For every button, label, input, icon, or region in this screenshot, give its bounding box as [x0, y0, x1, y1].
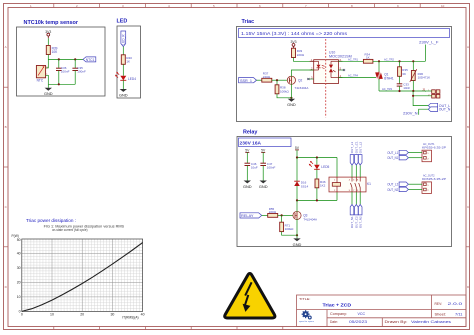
- svg-text:OUT_N2: OUT_N2: [358, 216, 362, 228]
- hierarchical label OUT_L1: [387, 150, 408, 155]
- wire Q2 source to ground: [290, 84, 292, 99]
- capacitor C46: [245, 162, 258, 181]
- svg-text:Triac + ZCD: Triac + ZCD: [323, 303, 352, 309]
- svg-text:220Ω: 220Ω: [263, 75, 271, 79]
- svg-text:1K: 1K: [126, 60, 130, 64]
- junction bottom rail / C36: [58, 83, 60, 85]
- hierarchical label OUT_N: [428, 107, 451, 112]
- ground (C46): [243, 181, 252, 189]
- resistor R55: [268, 214, 278, 218]
- opto pin numbers: [311, 58, 342, 80]
- svg-text:39: 39: [402, 72, 406, 76]
- wire coil bottom rail: [297, 199, 337, 201]
- graph curve: [22, 243, 143, 312]
- svg-text:open for space: open for space: [299, 320, 314, 323]
- junction rail/LED5: [316, 156, 318, 158]
- power 3V3 (NTC): [47, 33, 50, 38]
- svg-text:TITLE:: TITLE:: [299, 297, 311, 301]
- svg-text:1.15V 15mA (3.3V) : 144 ohms =: 1.15V 15mA (3.3V) : 144 ohms => 220 ohms: [241, 31, 348, 36]
- capacitor C36: [56, 59, 70, 84]
- title block v divider drawnby: [381, 318, 383, 327]
- svg-text:KF635-6.35-2P: KF635-6.35-2P: [422, 145, 446, 149]
- svg-text:220Ω: 220Ω: [297, 53, 305, 57]
- svg-text:B: B: [5, 125, 7, 129]
- junction 5V rail: [296, 156, 298, 158]
- svg-text:Triac power dissipation :: Triac power dissipation :: [26, 218, 76, 223]
- svg-text:7/11: 7/11: [455, 313, 463, 317]
- svg-text:LED: LED: [117, 19, 128, 25]
- company logo: [299, 310, 314, 323]
- graph x labels: [21, 312, 145, 316]
- svg-text:GND: GND: [259, 184, 268, 189]
- svg-text:2.0.0: 2.0.0: [448, 302, 463, 306]
- power 5V (C46): [245, 148, 250, 163]
- svg-text:OUT_N: OUT_N: [439, 108, 451, 112]
- junction R34/triac: [378, 60, 380, 62]
- svg-text:OUT_L2: OUT_L2: [358, 142, 362, 154]
- svg-text:100nF: 100nF: [267, 166, 276, 170]
- hierarchical label OUT_N2: [387, 187, 408, 192]
- svg-text:T4L5404A: T4L5404A: [295, 86, 309, 90]
- wire rail down to D16: [296, 158, 298, 182]
- svg-text:A: A: [467, 45, 469, 49]
- wire Q2 drain to opto pin2: [291, 70, 313, 77]
- wire RELAY to R55: [262, 214, 268, 216]
- svg-text:RELAY: RELAY: [241, 214, 254, 218]
- wire D16 to bottom rail: [296, 186, 298, 200]
- svg-text:LED5: LED5: [321, 165, 329, 169]
- wire R71 to gnd rail: [282, 232, 297, 236]
- opto pin3 no-connect: [308, 78, 313, 80]
- svg-text:Date:: Date:: [330, 320, 338, 324]
- svg-text:NTC10k temp sensor: NTC10k temp sensor: [24, 20, 79, 26]
- frame ticks left/right: [4, 87, 470, 247]
- junction node rail / C36: [58, 58, 60, 60]
- svg-text:on-state current (full cycle): on-state current (full cycle): [52, 228, 88, 232]
- transistor Q1 triac BTA41: [375, 61, 394, 91]
- connector AC_OUT1: [422, 142, 446, 162]
- svg-text:10D471K: 10D471K: [418, 76, 431, 80]
- wire bottom rail AC_TR3: [379, 90, 426, 92]
- svg-text:BTA41: BTA41: [384, 76, 394, 80]
- svg-text:A: A: [5, 45, 7, 49]
- junction rail/R35: [398, 60, 400, 62]
- power 5V (C47): [261, 148, 266, 163]
- svg-text:220Ω: 220Ω: [269, 210, 277, 214]
- svg-text:GND: GND: [287, 102, 296, 107]
- hierarchical label OUT_L2: [387, 182, 408, 187]
- junction bottom rail/R46: [316, 199, 318, 201]
- resistor R37: [262, 78, 272, 82]
- note box relay: [239, 138, 292, 147]
- wire opto pin6 net AC_TR1: [338, 60, 363, 62]
- junction rail/R36: [412, 60, 414, 62]
- wire R37 to Q2 gate: [272, 79, 288, 81]
- capacitor C33 snubber: [397, 82, 411, 91]
- capacitor C47: [260, 162, 275, 181]
- svg-text:GND: GND: [243, 184, 252, 189]
- svg-text:10uF: 10uF: [251, 166, 258, 170]
- opto pin5 no-connect: [338, 69, 344, 71]
- LED section box: [117, 26, 141, 98]
- wire rail to connector pin1: [426, 90, 432, 92]
- isolation dashed line: [325, 39, 327, 118]
- wire rail down to LED5: [316, 158, 318, 165]
- frame ticks bottom: [54, 327, 283, 330]
- wire label to R40: [122, 47, 124, 55]
- svg-text:40: 40: [141, 312, 145, 316]
- svg-text:10: 10: [441, 4, 445, 8]
- hierarchical label OUT_L: [428, 103, 450, 108]
- hierarchical label OUT_L2 (vertical top): [358, 142, 362, 165]
- global label SSR_1: [239, 78, 257, 83]
- wire SSR_1 to R37: [257, 79, 262, 81]
- svg-text:REV:: REV:: [435, 302, 443, 306]
- wire R38 to gnd rail: [277, 94, 291, 98]
- frame ticks top: [54, 4, 420, 8]
- resistor R71: [280, 215, 294, 231]
- svg-text:SSR_1: SSR_1: [240, 79, 252, 83]
- wire top rail AC_TR2: [373, 60, 426, 62]
- junction Q3 source/gnd: [296, 234, 298, 236]
- wire 230V_L_F down: [424, 45, 426, 62]
- opto pin stubs: [310, 61, 343, 77]
- junction bottom rail/C33: [398, 90, 400, 92]
- thermistor NTC: [36, 66, 48, 83]
- svg-text:40: 40: [17, 252, 21, 256]
- svg-text:230V_L_F: 230V_L_F: [419, 41, 439, 45]
- wire rail up to coil: [336, 158, 338, 178]
- svg-text:T4L5404A: T4L5404A: [303, 217, 317, 221]
- wire NTC to bottom rail: [46, 75, 49, 84]
- capacitor C35: [72, 59, 86, 84]
- wire 3V3 to R39: [47, 38, 49, 45]
- svg-text:Triac: Triac: [242, 19, 255, 25]
- resistor R33: [292, 48, 296, 57]
- svg-text:GND: GND: [44, 91, 53, 96]
- resistor R46: [315, 179, 319, 188]
- ground (C47): [259, 181, 268, 189]
- wire 230V_N to OUT_N: [419, 109, 429, 115]
- svg-text:20: 20: [80, 312, 84, 316]
- svg-text:230V_N: 230V_N: [403, 111, 418, 115]
- svg-text:P(W): P(W): [12, 234, 19, 238]
- hierarchical label OUT_N2 (vertical bottom): [358, 205, 362, 229]
- resistor R38: [275, 80, 289, 94]
- svg-text:Valentin Cabanes: Valentin Cabanes: [411, 320, 451, 324]
- junction R71 node: [281, 214, 283, 216]
- ground (NTC): [44, 84, 53, 96]
- svg-text:5V: 5V: [295, 146, 300, 150]
- hierarchical label OUT_N1 (vertical bottom): [350, 205, 354, 229]
- graph frame: [22, 239, 143, 311]
- varistor R36: [410, 61, 430, 91]
- wire branch to connector pin2: [413, 91, 432, 96]
- junction R38 node: [276, 79, 278, 81]
- svg-text:0: 0: [21, 312, 23, 316]
- wire R33 to opto pin1: [294, 58, 314, 62]
- Relay section box: [237, 137, 452, 247]
- svg-text:KF635-6.35-2P: KF635-6.35-2P: [422, 177, 446, 181]
- hierarchical label OUT_C (vertical top): [355, 141, 359, 165]
- wire LED5 to R46: [316, 169, 318, 179]
- svg-text:Relay: Relay: [243, 130, 257, 136]
- diode D16 flyback: [294, 181, 308, 189]
- title block v divider rev: [431, 295, 433, 318]
- transistor Q2: [287, 76, 308, 90]
- svg-text:100kΩ: 100kΩ: [285, 227, 295, 231]
- ground (relay section): [293, 238, 302, 246]
- svg-text:AC_TR4: AC_TR4: [348, 74, 358, 78]
- connector AC_OUT2: [422, 174, 446, 194]
- svg-text:Sheet:: Sheet:: [435, 313, 447, 317]
- title block v divider logo: [326, 310, 328, 327]
- svg-text:10K: 10K: [52, 50, 59, 54]
- graph major grid: [22, 239, 143, 311]
- LED LED5: [309, 161, 330, 169]
- wire Q3 drain up: [296, 200, 298, 212]
- svg-text:3V3: 3V3: [45, 30, 51, 34]
- wire R55 to Q3 gate: [278, 214, 293, 216]
- svg-text:30: 30: [110, 312, 114, 316]
- power 3V3 (triac): [292, 44, 295, 49]
- junction bottom rail/Q3: [296, 199, 298, 201]
- svg-text:1K2: 1K2: [320, 184, 326, 188]
- hierarchical label OUT_N1: [387, 156, 408, 161]
- svg-text:1K: 1K: [366, 56, 370, 60]
- wires relay top contacts: [352, 165, 360, 177]
- hierarchical label OUT_C2 (vertical bottom): [355, 205, 359, 229]
- svg-text:LED_R: LED_R: [122, 34, 126, 45]
- hierarchical label OUT_L1 (vertical top): [350, 142, 354, 165]
- junction bottom rail/branch: [412, 90, 414, 92]
- junction connector branch: [412, 95, 414, 97]
- graph minor grid: [22, 239, 143, 311]
- wire node down to NTC: [46, 59, 49, 68]
- svg-text:100nF: 100nF: [77, 70, 86, 74]
- LED LED4: [115, 72, 136, 81]
- svg-text:LED4: LED4: [128, 77, 136, 81]
- svg-text:20: 20: [17, 281, 21, 285]
- global label LED_R (vertical): [121, 31, 126, 47]
- wire branch down to OUT_L: [413, 96, 428, 106]
- svg-text:NTC: NTC: [37, 78, 44, 82]
- svg-text:OUT_N1: OUT_N1: [387, 156, 398, 160]
- svg-text:30: 30: [17, 266, 21, 270]
- NTC10k temp sensor section box: [17, 27, 106, 96]
- svg-text:3V3: 3V3: [290, 40, 296, 44]
- resistor R35 snubber: [398, 61, 409, 84]
- svg-text:230V 16A: 230V 16A: [240, 140, 262, 145]
- svg-text:OUT_L1: OUT_L1: [387, 151, 398, 155]
- connector J5: [422, 87, 440, 98]
- wire bottom rail (NTC): [48, 83, 75, 85]
- svg-text:10nF: 10nF: [403, 86, 410, 90]
- svg-text:Company:: Company:: [330, 312, 347, 316]
- svg-text:Q2: Q2: [298, 78, 302, 82]
- wire coil bottom up: [336, 192, 338, 201]
- op-amp U10 optocoupler MOC3021SM: [314, 51, 352, 84]
- svg-text:5V: 5V: [261, 148, 266, 152]
- transistor Q3: [293, 211, 317, 221]
- svg-text:NTC1: NTC1: [86, 58, 95, 62]
- svg-text:GND: GND: [293, 242, 302, 247]
- svg-text:VCC: VCC: [358, 312, 366, 316]
- wire opto pin4 to triac gate: [338, 77, 376, 79]
- relay K1: [329, 177, 371, 192]
- svg-text:100kΩ: 100kΩ: [280, 89, 290, 93]
- svg-text:Drawn By:: Drawn By:: [385, 320, 408, 324]
- wires relay bottom contacts: [352, 192, 360, 205]
- junction source/gnd: [290, 97, 292, 99]
- wire Q3 source to ground: [296, 219, 298, 239]
- wires AC_OUT2: [408, 184, 422, 189]
- svg-text:K1: K1: [367, 182, 371, 186]
- svg-text:AC_TR3: AC_TR3: [382, 87, 392, 91]
- svg-text:SS14: SS14: [301, 184, 309, 188]
- note box triac: [239, 29, 450, 38]
- ground (triac section): [287, 99, 296, 107]
- wire R39 to node: [47, 55, 49, 60]
- power 5V (relay coil): [295, 146, 300, 158]
- svg-text:10: 10: [50, 312, 54, 316]
- wire 5V top rail: [297, 157, 337, 159]
- wire LED4 to ground: [122, 80, 124, 89]
- svg-text:05/2023: 05/2023: [349, 320, 367, 324]
- junction node rail / C35: [74, 58, 76, 60]
- svg-text:B: B: [467, 125, 469, 129]
- resistor R40: [121, 55, 125, 65]
- svg-text:50: 50: [17, 238, 21, 242]
- wire node rail to NTC1: [48, 58, 83, 60]
- ground (LED): [119, 89, 128, 98]
- svg-text:100nF: 100nF: [61, 70, 70, 74]
- warning triangle: [225, 274, 275, 318]
- graph y labels: [17, 238, 21, 313]
- svg-text:10: 10: [17, 295, 21, 299]
- global label RELAY: [240, 213, 262, 218]
- wire R46 to bottom rail: [316, 188, 318, 201]
- wires AC_OUT1: [408, 153, 422, 158]
- title block h divider 1: [297, 309, 467, 311]
- title block h divider 2: [327, 317, 466, 319]
- svg-text:AC_TR1: AC_TR1: [348, 57, 358, 61]
- Triac section box: [237, 27, 452, 122]
- svg-text:I T(RMS)(A): I T(RMS)(A): [122, 316, 139, 320]
- lightning bolt: [245, 282, 252, 306]
- resistor R34: [363, 59, 373, 63]
- svg-text:OUT_L2: OUT_L2: [387, 183, 398, 187]
- svg-text:OUT_N2: OUT_N2: [387, 188, 398, 192]
- title block outer: [297, 295, 467, 327]
- wire R40 to LED4: [122, 64, 124, 76]
- svg-text:AC_TR2: AC_TR2: [384, 57, 394, 61]
- global label NTC1: [83, 57, 96, 62]
- svg-text:GND: GND: [119, 93, 128, 98]
- svg-text:5V: 5V: [245, 148, 250, 152]
- resistor R39: [46, 46, 50, 55]
